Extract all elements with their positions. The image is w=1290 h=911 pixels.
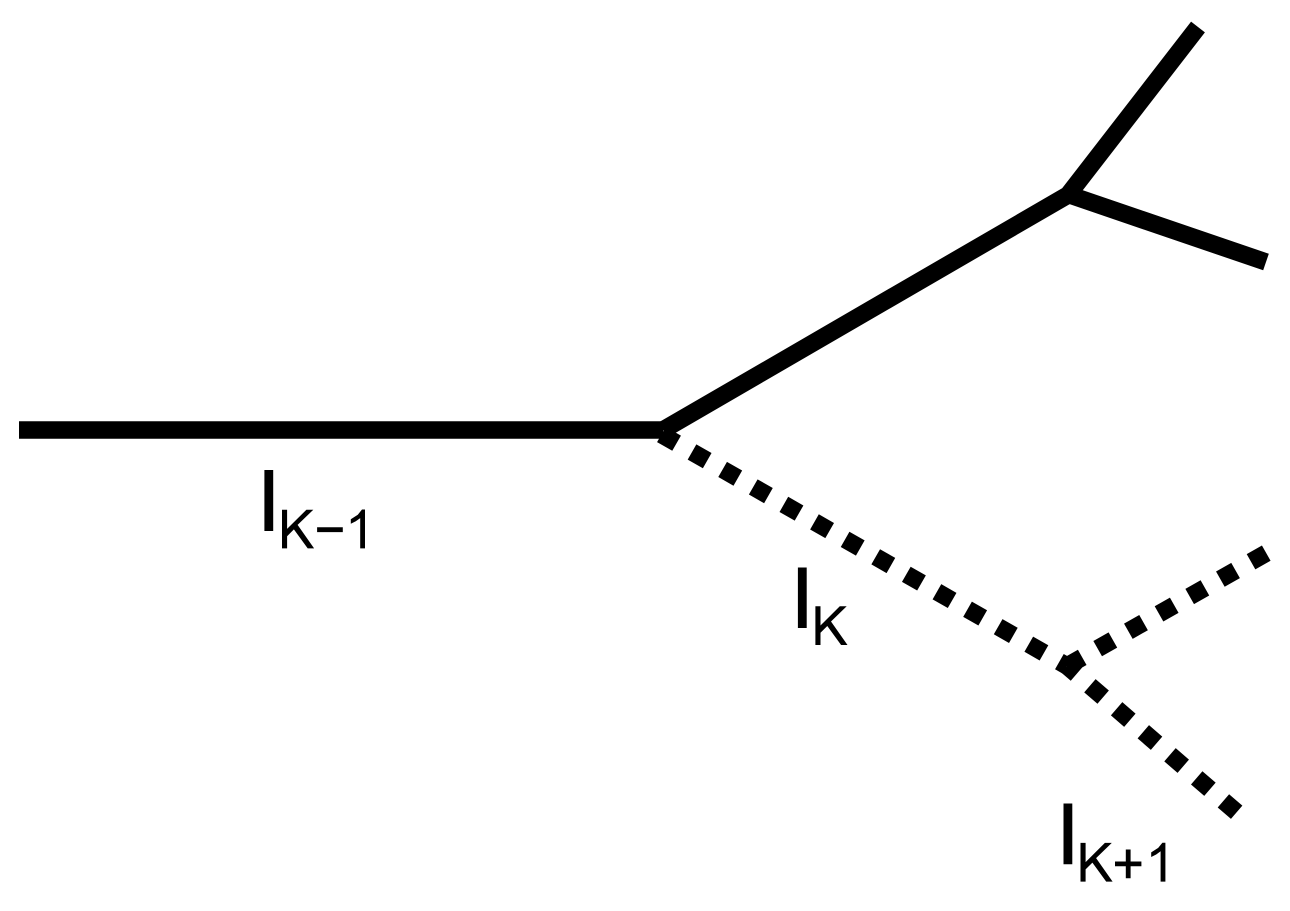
wire: dashed upper branch from lower vertex xyxy=(1067,551,1270,666)
wire: dashed lower branch (interval I_{K+1}) xyxy=(1067,666,1241,816)
wire: dashed segment (interval I_K) from junction to lower vertex xyxy=(661,435,1067,667)
node label I_{K-1} xyxy=(264,470,365,548)
node label I_K xyxy=(798,568,848,646)
wire: solid diagonal to upper vertex plus steep continuation xyxy=(663,27,1198,430)
node label I_{K+1} xyxy=(1064,804,1166,882)
wire: solid horizontal segment (interval I_{K-1}) xyxy=(19,421,663,439)
wire: solid right branch from upper vertex xyxy=(1064,193,1266,262)
